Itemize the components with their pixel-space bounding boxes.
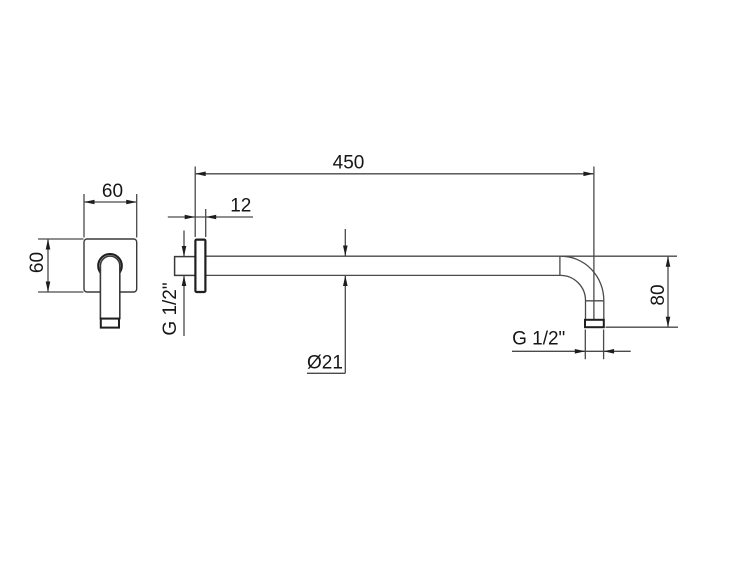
svg-text:G 1/2": G 1/2" xyxy=(160,282,181,335)
svg-text:60: 60 xyxy=(27,252,48,273)
svg-text:12: 12 xyxy=(230,195,251,216)
svg-text:G 1/2": G 1/2" xyxy=(512,329,565,350)
svg-text:Ø21: Ø21 xyxy=(307,353,343,374)
svg-text:80: 80 xyxy=(648,284,669,305)
svg-text:450: 450 xyxy=(333,153,365,174)
svg-text:60: 60 xyxy=(102,181,123,202)
